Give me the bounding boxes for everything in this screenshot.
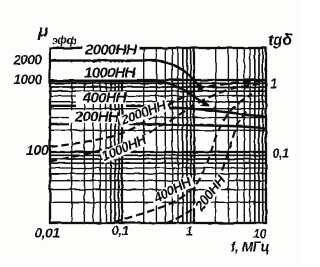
svg-text:эфф: эфф xyxy=(52,35,77,47)
svg-text:f, МГц: f, МГц xyxy=(231,240,270,255)
svg-text:0,01: 0,01 xyxy=(34,225,60,241)
svg-text:1000: 1000 xyxy=(13,72,42,87)
svg-text:1: 1 xyxy=(186,224,193,239)
svg-text:μ: μ xyxy=(37,22,49,41)
svg-text:100: 100 xyxy=(26,143,49,159)
svg-text:200НН: 200НН xyxy=(74,109,120,126)
svg-text:2000: 2000 xyxy=(12,53,42,68)
svg-text:2000НН: 2000НН xyxy=(84,42,138,59)
svg-text:400НН: 400НН xyxy=(82,90,128,107)
svg-text:1000НН: 1000НН xyxy=(84,65,137,82)
svg-text:1: 1 xyxy=(270,76,278,91)
svg-text:0,1: 0,1 xyxy=(112,223,129,238)
svg-text:0,1: 0,1 xyxy=(272,146,289,161)
svg-text:tgδ: tgδ xyxy=(268,32,293,49)
